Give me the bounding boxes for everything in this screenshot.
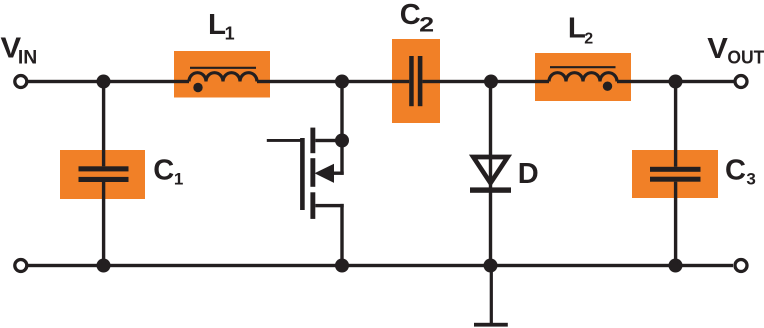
source lead vertical wire bbox=[340, 204, 343, 266]
label C2 bbox=[400, 0, 434, 37]
svg-text:D: D bbox=[518, 158, 539, 190]
diode cathode wire bbox=[489, 82, 492, 266]
wire top rail: L1 to C2 bbox=[257, 80, 409, 83]
diode triangle anode bbox=[473, 157, 507, 183]
wire top rail: C2 to L2 bbox=[422, 80, 549, 83]
svg-text:OUT: OUT bbox=[727, 47, 764, 68]
svg-text:1: 1 bbox=[225, 24, 235, 44]
drain lead horizontal bbox=[315, 139, 343, 142]
node top rail at diode bbox=[484, 75, 498, 89]
terminal V_OUT bbox=[735, 76, 747, 88]
label L2 bbox=[568, 12, 593, 47]
diode cathode bar bbox=[470, 187, 511, 192]
svg-text:2: 2 bbox=[584, 31, 593, 48]
node bottom rail at ground bbox=[484, 259, 498, 273]
terminal bottom-right bbox=[735, 260, 747, 272]
node bottom rail at MOSFET source bbox=[335, 259, 349, 273]
node bottom rail at C3 bbox=[669, 259, 683, 273]
label V_OUT bbox=[707, 33, 764, 68]
label C3 bbox=[725, 155, 756, 189]
node bottom rail at C1 bbox=[97, 259, 111, 273]
svg-text:C: C bbox=[725, 155, 746, 187]
body arrow bbox=[315, 164, 335, 183]
ground bbox=[474, 266, 508, 327]
svg-text:V: V bbox=[707, 33, 728, 65]
svg-text:3: 3 bbox=[746, 169, 755, 188]
body wire bbox=[334, 172, 344, 175]
diode D bbox=[470, 82, 511, 266]
wire top rail: L2 to V_OUT terminal bbox=[617, 80, 734, 83]
inductor L2 bbox=[549, 67, 617, 81]
svg-text:C: C bbox=[400, 0, 421, 31]
wire bottom rail bbox=[28, 264, 733, 267]
terminal bottom-left bbox=[15, 260, 27, 272]
gate bar bbox=[300, 138, 305, 210]
channel segment top bbox=[310, 128, 315, 154]
svg-text:2: 2 bbox=[419, 13, 434, 37]
svg-text:IN: IN bbox=[18, 47, 37, 68]
wire top rail: V_IN terminal to L1 bbox=[28, 80, 189, 83]
label L1 bbox=[208, 9, 235, 44]
svg-text:L: L bbox=[208, 9, 226, 41]
transistor Q1 MOSFET bbox=[267, 82, 349, 266]
node top rail at C3 bbox=[669, 75, 683, 89]
label V_IN bbox=[1, 32, 38, 68]
polarity dot L1 bbox=[193, 83, 202, 92]
source lead horizontal bbox=[315, 204, 343, 207]
svg-text:L: L bbox=[568, 12, 586, 44]
polarity dot L2 bbox=[603, 82, 612, 91]
highlight box C3 bbox=[632, 150, 718, 198]
node top rail at C1 bbox=[97, 75, 111, 89]
highlight box L1 bbox=[174, 51, 270, 98]
svg-text:1: 1 bbox=[174, 169, 183, 188]
inductor L1 bbox=[189, 68, 257, 82]
drain lead vertical wire bbox=[340, 82, 343, 175]
capacitor C1 bbox=[79, 82, 129, 266]
highlight box L2 bbox=[535, 53, 631, 101]
node drain corner bbox=[335, 134, 349, 148]
gate lead wire bbox=[267, 139, 303, 142]
channel segment bottom bbox=[310, 192, 315, 219]
capacitor C2 bbox=[409, 56, 422, 106]
node top rail at MOSFET drain bbox=[335, 75, 349, 89]
highlight box C2 bbox=[392, 39, 440, 123]
channel segment middle bbox=[310, 158, 315, 187]
capacitor C3 bbox=[650, 82, 701, 266]
svg-text:C: C bbox=[153, 155, 174, 187]
highlight box C1 bbox=[60, 150, 145, 199]
terminal V_IN bbox=[15, 76, 27, 88]
label C1 bbox=[153, 155, 183, 189]
